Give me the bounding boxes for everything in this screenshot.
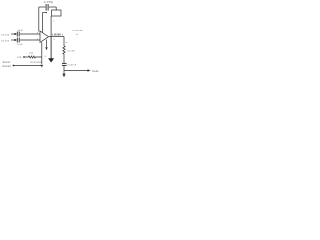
svg-text:w: w	[66, 42, 68, 44]
resistor R1 1k horizontal	[25, 56, 42, 58]
svg-text:5: 5	[54, 39, 56, 41]
wire pin2 down	[41, 42, 43, 64]
svg-text:6: 6	[45, 56, 47, 58]
svg-text:SX-4/OFW: SX-4/OFW	[30, 62, 42, 64]
wire input A	[11, 33, 17, 35]
capacitor C2 10uF	[17, 38, 40, 43]
wire output cap to speaker	[55, 7, 57, 10]
svg-text:1: 1	[53, 20, 55, 22]
ground arrow center big	[48, 58, 54, 62]
svg-text:1 kΩ: 1 kΩ	[29, 52, 34, 54]
svg-text:1 PB: 1 PB	[17, 57, 22, 59]
svg-text:Audio: Audio	[92, 70, 99, 73]
wire audio out	[64, 70, 88, 72]
capacitor C1 10uF	[17, 32, 40, 37]
ground arrow pin4	[45, 47, 47, 50]
speaker SP1 box	[52, 10, 61, 16]
arrow audio out	[88, 69, 91, 72]
svg-text:w.: w.	[76, 34, 78, 36]
resistor R2 10 ohm vertical	[63, 45, 65, 55]
terminal R1 left	[23, 56, 25, 58]
svg-text:Ch.In A: Ch.In A	[1, 34, 9, 37]
capacitor C3 top	[39, 4, 56, 11]
wire R2 to C4	[63, 55, 65, 63]
wire C4 down	[63, 66, 65, 74]
wire pin8 vertical	[43, 12, 47, 33]
wire input B	[11, 39, 17, 41]
svg-text:0.047uF: 0.047uF	[67, 64, 77, 66]
svg-text:10 uF: 10 uF	[18, 30, 24, 32]
svg-text:Ground: Ground	[2, 65, 11, 68]
svg-text:·8 4/5W: ·8 4/5W	[43, 2, 54, 4]
capacitor C4	[62, 63, 67, 65]
input B terminal	[14, 39, 16, 41]
wire output	[49, 36, 64, 38]
wire speaker to output node and down	[50, 16, 52, 37]
terminal ground	[13, 65, 15, 67]
svg-text:10 ohm: 10 ohm	[67, 50, 75, 52]
ground rail	[14, 65, 42, 67]
ground stub pin4	[46, 40, 48, 48]
ground arrow junction	[41, 65, 44, 68]
svg-text:LM386 t: LM386 t	[52, 32, 62, 36]
wire output down	[63, 37, 65, 46]
input A terminal	[14, 33, 16, 35]
svg-text:is wcrwn: is wcrwn	[72, 29, 84, 32]
svg-text:10 uF: 10 uF	[17, 44, 23, 46]
wire feedback left vertical	[38, 7, 40, 32]
svg-text:Ch.In B: Ch.In B	[1, 41, 10, 43]
op-amp U1 LM386	[40, 31, 49, 42]
svg-text:Sound: Sound	[3, 62, 11, 64]
ground arrow bottom right	[62, 74, 65, 78]
